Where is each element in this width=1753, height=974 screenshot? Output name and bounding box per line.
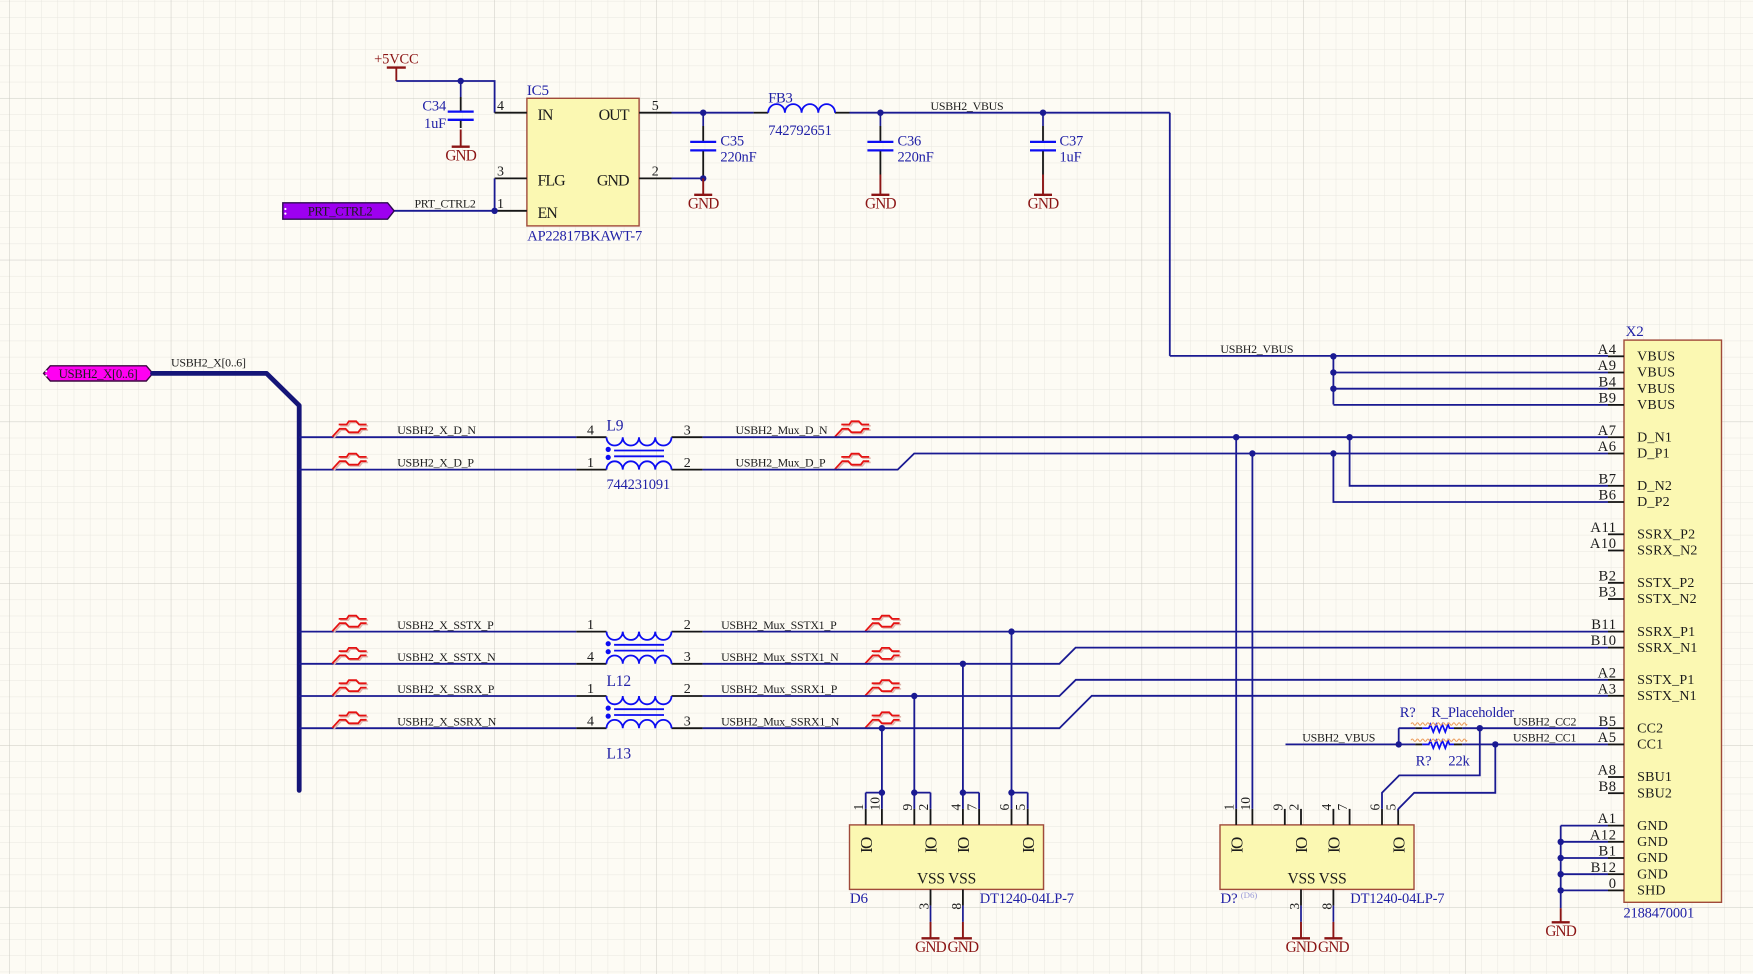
svg-text:D?: D? bbox=[1220, 891, 1238, 907]
svg-text:1: 1 bbox=[587, 618, 594, 633]
svg-text:C35: C35 bbox=[720, 133, 744, 149]
svg-text:22k: 22k bbox=[1448, 754, 1470, 770]
svg-text:GND: GND bbox=[1286, 939, 1317, 956]
svg-text:7: 7 bbox=[965, 804, 980, 811]
svg-text:2: 2 bbox=[916, 804, 931, 811]
svg-text:SSTX_P2: SSTX_P2 bbox=[1637, 576, 1694, 591]
svg-text:VSS VSS: VSS VSS bbox=[917, 871, 976, 888]
svg-text:9: 9 bbox=[1270, 804, 1285, 811]
svg-text:USBH2_Mux_SSRX1_N: USBH2_Mux_SSRX1_N bbox=[721, 714, 840, 728]
svg-text:GND: GND bbox=[1637, 835, 1668, 850]
svg-text:GND: GND bbox=[1028, 196, 1059, 213]
svg-text:2: 2 bbox=[684, 618, 691, 633]
svg-text:3: 3 bbox=[1287, 903, 1302, 910]
svg-text:GND: GND bbox=[688, 196, 719, 213]
svg-text:X2: X2 bbox=[1626, 324, 1644, 340]
svg-text:8: 8 bbox=[949, 903, 964, 910]
svg-text:9: 9 bbox=[900, 804, 915, 811]
svg-text:D_N2: D_N2 bbox=[1637, 479, 1672, 494]
svg-text:5: 5 bbox=[1384, 804, 1399, 811]
svg-text:C36: C36 bbox=[898, 133, 922, 149]
svg-text:+5VCC: +5VCC bbox=[374, 52, 418, 68]
svg-text:CC1: CC1 bbox=[1637, 738, 1663, 753]
svg-text:B8: B8 bbox=[1598, 779, 1616, 795]
svg-text:USBH2_VBUS: USBH2_VBUS bbox=[1220, 342, 1293, 356]
svg-text:SSRX_N2: SSRX_N2 bbox=[1637, 544, 1698, 559]
svg-text:SSRX_P1: SSRX_P1 bbox=[1637, 625, 1695, 640]
svg-text:220nF: 220nF bbox=[898, 149, 934, 165]
svg-text:GND: GND bbox=[1637, 851, 1668, 866]
svg-text:0: 0 bbox=[1609, 876, 1617, 892]
svg-text:VBUS: VBUS bbox=[1637, 398, 1675, 413]
svg-text:10: 10 bbox=[867, 797, 882, 811]
svg-text:2: 2 bbox=[684, 682, 691, 697]
svg-text:GND: GND bbox=[445, 148, 476, 165]
svg-text:D_P1: D_P1 bbox=[1637, 447, 1670, 462]
svg-text:USBH2_X_D_N: USBH2_X_D_N bbox=[397, 423, 476, 437]
svg-text:GND: GND bbox=[597, 173, 629, 190]
svg-text:IO: IO bbox=[1227, 837, 1246, 853]
svg-text:DT1240-04LP-7: DT1240-04LP-7 bbox=[1350, 891, 1444, 907]
svg-text:L12: L12 bbox=[607, 673, 631, 690]
svg-text:D_P2: D_P2 bbox=[1637, 495, 1670, 510]
svg-text:USBH2_X[0..6]: USBH2_X[0..6] bbox=[171, 355, 246, 369]
svg-text:SSTX_N2: SSTX_N2 bbox=[1637, 592, 1697, 607]
svg-text:4: 4 bbox=[1319, 804, 1334, 811]
svg-text:VBUS: VBUS bbox=[1637, 382, 1675, 397]
svg-text:IN: IN bbox=[538, 107, 554, 124]
svg-text:2: 2 bbox=[684, 456, 691, 471]
svg-text:4: 4 bbox=[587, 650, 594, 665]
svg-text:IO: IO bbox=[922, 837, 941, 853]
svg-text:SSTX_P1: SSTX_P1 bbox=[1637, 673, 1694, 688]
svg-text:USBH2_X_SSTX_P: USBH2_X_SSTX_P bbox=[397, 618, 494, 632]
svg-text:PRT_CTRL2: PRT_CTRL2 bbox=[414, 197, 475, 211]
svg-text:742792651: 742792651 bbox=[768, 123, 831, 139]
svg-text:R?: R? bbox=[1416, 754, 1432, 770]
svg-text:D6: D6 bbox=[850, 891, 869, 907]
svg-text:SSRX_P2: SSRX_P2 bbox=[1637, 528, 1695, 543]
svg-text:USBH2_Mux_SSTX1_P: USBH2_Mux_SSTX1_P bbox=[721, 618, 837, 632]
svg-text:3: 3 bbox=[917, 903, 932, 910]
svg-text:DT1240-04LP-7: DT1240-04LP-7 bbox=[980, 891, 1074, 907]
svg-text:IC5: IC5 bbox=[527, 83, 549, 99]
svg-text:L13: L13 bbox=[607, 746, 632, 763]
svg-text:7: 7 bbox=[1335, 804, 1350, 811]
svg-text:R?: R? bbox=[1400, 705, 1416, 721]
svg-text:D_N1: D_N1 bbox=[1637, 430, 1672, 445]
svg-text:B2: B2 bbox=[1598, 568, 1616, 584]
svg-text:CC2: CC2 bbox=[1637, 721, 1663, 736]
svg-text:1: 1 bbox=[587, 682, 594, 697]
svg-text:SBU1: SBU1 bbox=[1637, 770, 1672, 785]
svg-text:GND: GND bbox=[1637, 819, 1668, 834]
svg-text:L9: L9 bbox=[607, 418, 624, 435]
svg-text:IO: IO bbox=[857, 837, 876, 853]
svg-text:3: 3 bbox=[497, 165, 504, 180]
svg-text:2188470001: 2188470001 bbox=[1624, 906, 1695, 922]
svg-text:GND: GND bbox=[1637, 867, 1668, 882]
svg-text:3: 3 bbox=[684, 714, 691, 729]
svg-text:USBH2_X[0..6]: USBH2_X[0..6] bbox=[59, 367, 138, 381]
svg-text:GND: GND bbox=[865, 196, 896, 213]
svg-text:220nF: 220nF bbox=[720, 149, 756, 165]
svg-text:1: 1 bbox=[851, 804, 866, 811]
svg-text:SSRX_N1: SSRX_N1 bbox=[1637, 641, 1698, 656]
svg-text:IO: IO bbox=[954, 837, 973, 853]
svg-text:PRT_CTRL2: PRT_CTRL2 bbox=[308, 205, 373, 219]
svg-text:744231091: 744231091 bbox=[607, 477, 670, 493]
svg-text:4: 4 bbox=[497, 99, 504, 114]
svg-text:USBH2_X_SSRX_N: USBH2_X_SSRX_N bbox=[397, 714, 497, 728]
svg-text:USBH2_X_D_P: USBH2_X_D_P bbox=[397, 456, 474, 470]
svg-text:2: 2 bbox=[1287, 804, 1302, 811]
svg-text:USBH2_X_SSRX_P: USBH2_X_SSRX_P bbox=[397, 682, 495, 696]
svg-text:8: 8 bbox=[1320, 903, 1335, 910]
svg-text:R_Placeholder: R_Placeholder bbox=[1431, 705, 1514, 721]
svg-text:A8: A8 bbox=[1598, 763, 1617, 779]
svg-text:GND: GND bbox=[948, 939, 979, 956]
svg-text:3: 3 bbox=[684, 650, 691, 665]
svg-text:FB3: FB3 bbox=[768, 91, 792, 107]
svg-text:C34: C34 bbox=[422, 99, 447, 115]
svg-text:1: 1 bbox=[497, 197, 504, 212]
svg-text:USBH2_Mux_D_N: USBH2_Mux_D_N bbox=[736, 423, 829, 437]
svg-text:USBH2_VBUS: USBH2_VBUS bbox=[1302, 731, 1375, 745]
svg-text:AP22817BKAWT-7: AP22817BKAWT-7 bbox=[527, 228, 642, 244]
svg-text:1uF: 1uF bbox=[1060, 149, 1082, 165]
svg-text:USBH2_VBUS: USBH2_VBUS bbox=[931, 99, 1004, 113]
svg-text:5: 5 bbox=[1013, 804, 1028, 811]
svg-text:(D6): (D6) bbox=[1241, 890, 1258, 900]
svg-text:A10: A10 bbox=[1590, 536, 1617, 552]
svg-text:6: 6 bbox=[997, 804, 1012, 811]
svg-text:GND: GND bbox=[915, 939, 946, 956]
svg-text:VSS VSS: VSS VSS bbox=[1287, 871, 1346, 888]
svg-text:USBH2_Mux_SSTX1_N: USBH2_Mux_SSTX1_N bbox=[721, 650, 839, 664]
svg-text:1uF: 1uF bbox=[424, 116, 446, 132]
svg-text:GND: GND bbox=[1318, 939, 1349, 956]
svg-text:3: 3 bbox=[684, 423, 691, 438]
svg-text:SSTX_N1: SSTX_N1 bbox=[1637, 689, 1697, 704]
svg-text:4: 4 bbox=[587, 423, 594, 438]
svg-text:VBUS: VBUS bbox=[1637, 366, 1675, 381]
svg-text:EN: EN bbox=[538, 205, 559, 222]
svg-text:IO: IO bbox=[1292, 837, 1311, 853]
svg-text:FLG: FLG bbox=[538, 173, 567, 190]
svg-text:USBH2_Mux_SSRX1_P: USBH2_Mux_SSRX1_P bbox=[721, 682, 838, 696]
svg-text:4: 4 bbox=[948, 804, 963, 811]
svg-text:SHD: SHD bbox=[1637, 884, 1666, 899]
svg-text:5: 5 bbox=[652, 99, 659, 114]
svg-text:OUT: OUT bbox=[599, 107, 630, 124]
svg-text:C37: C37 bbox=[1060, 133, 1084, 149]
svg-text:USBH2_Mux_D_P: USBH2_Mux_D_P bbox=[736, 456, 827, 470]
svg-text:USBH2_CC1: USBH2_CC1 bbox=[1513, 731, 1576, 745]
svg-text:2: 2 bbox=[652, 165, 659, 180]
svg-text:GND: GND bbox=[1545, 923, 1576, 940]
svg-text:USBH2_CC2: USBH2_CC2 bbox=[1513, 715, 1576, 729]
svg-text:10: 10 bbox=[1238, 797, 1253, 811]
svg-text:IO: IO bbox=[1019, 837, 1038, 853]
svg-text:USBH2_X_SSTX_N: USBH2_X_SSTX_N bbox=[397, 650, 496, 664]
svg-text:A11: A11 bbox=[1590, 520, 1616, 536]
svg-text:IO: IO bbox=[1389, 837, 1408, 853]
svg-text:4: 4 bbox=[587, 714, 594, 729]
svg-text:6: 6 bbox=[1368, 804, 1383, 811]
svg-text:B3: B3 bbox=[1598, 585, 1616, 601]
svg-text:SBU2: SBU2 bbox=[1637, 786, 1672, 801]
svg-text:IO: IO bbox=[1325, 837, 1344, 853]
svg-text:VBUS: VBUS bbox=[1637, 350, 1675, 365]
svg-text:1: 1 bbox=[587, 456, 594, 471]
svg-text:1: 1 bbox=[1222, 804, 1237, 811]
